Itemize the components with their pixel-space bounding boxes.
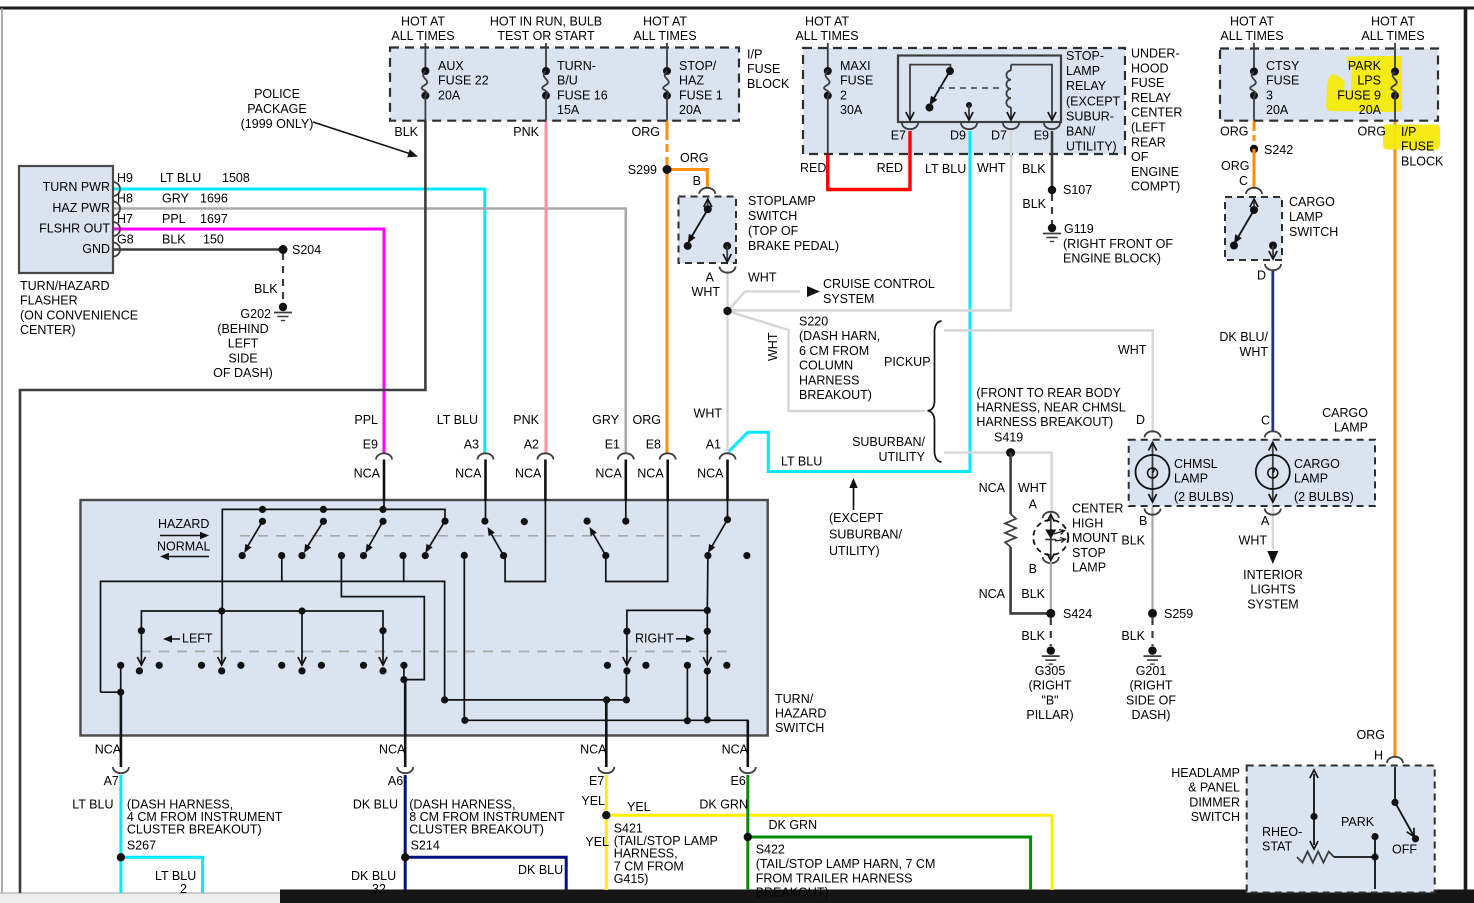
svg-text:LAMP: LAMP — [1066, 64, 1100, 78]
svg-text:CHMSL: CHMSL — [1174, 457, 1218, 471]
svg-text:LT BLU: LT BLU — [925, 162, 966, 176]
svg-text:CLUSTER BREAKOUT): CLUSTER BREAKOUT) — [409, 823, 544, 837]
svg-text:BAN/: BAN/ — [1066, 125, 1096, 139]
svg-text:DK BLU/: DK BLU/ — [1219, 330, 1268, 344]
svg-text:FUSE: FUSE — [747, 62, 780, 76]
svg-text:E7: E7 — [589, 774, 604, 788]
svg-text:COMPT): COMPT) — [1131, 180, 1180, 194]
svg-text:ORG: ORG — [1358, 125, 1386, 139]
svg-text:DK BLU: DK BLU — [518, 863, 563, 877]
svg-text:WHT: WHT — [1118, 343, 1147, 357]
svg-text:ALL TIMES: ALL TIMES — [1361, 29, 1424, 43]
svg-text:(TAIL/STOP LAMP HARN, 7 CM: (TAIL/STOP LAMP HARN, 7 CM — [756, 857, 936, 871]
svg-text:PICKUP: PICKUP — [884, 355, 931, 369]
svg-text:A: A — [706, 271, 715, 285]
svg-text:6 CM FROM: 6 CM FROM — [799, 344, 869, 358]
svg-text:SYSTEM: SYSTEM — [1247, 597, 1298, 611]
svg-text:FUSE 16: FUSE 16 — [557, 88, 608, 102]
svg-text:CTSY: CTSY — [1266, 59, 1300, 73]
svg-text:NCA: NCA — [95, 743, 122, 757]
svg-text:HARNESS: HARNESS — [799, 373, 859, 387]
svg-text:2: 2 — [840, 88, 847, 102]
svg-text:RED: RED — [877, 161, 903, 175]
svg-text:B: B — [693, 174, 701, 188]
svg-text:ORG: ORG — [1220, 125, 1248, 139]
svg-text:NCA: NCA — [595, 467, 622, 481]
svg-text:FUSE: FUSE — [1131, 76, 1164, 90]
svg-text:A6: A6 — [388, 774, 403, 788]
svg-text:HOT AT: HOT AT — [643, 15, 687, 29]
svg-text:PNK: PNK — [513, 413, 539, 427]
svg-text:E9: E9 — [1034, 129, 1049, 143]
svg-text:WHT: WHT — [692, 285, 721, 299]
svg-text:LT BLU: LT BLU — [155, 869, 196, 883]
svg-text:SWITCH: SWITCH — [748, 209, 797, 223]
svg-text:ORG: ORG — [1221, 159, 1249, 173]
svg-text:RELAY: RELAY — [1066, 79, 1107, 93]
svg-text:G201: G201 — [1136, 664, 1167, 678]
svg-text:FUSE 9: FUSE 9 — [1337, 88, 1381, 102]
svg-text:OFF: OFF — [1392, 843, 1417, 857]
svg-text:1697: 1697 — [200, 212, 228, 226]
svg-text:NCA: NCA — [697, 467, 724, 481]
svg-text:RHEO-: RHEO- — [1262, 825, 1302, 839]
svg-text:BLK: BLK — [394, 125, 418, 139]
svg-text:YEL: YEL — [627, 800, 651, 814]
svg-text:A: A — [1029, 498, 1038, 512]
svg-text:ORG: ORG — [632, 125, 660, 139]
svg-text:E6: E6 — [731, 774, 746, 788]
svg-text:GRY: GRY — [592, 413, 620, 427]
svg-text:NCA: NCA — [979, 587, 1006, 601]
svg-text:20A: 20A — [1266, 103, 1289, 117]
svg-text:WHT: WHT — [766, 332, 780, 361]
svg-text:UNDER-: UNDER- — [1131, 47, 1180, 61]
svg-text:"B": "B" — [1041, 693, 1058, 707]
svg-text:E9: E9 — [363, 438, 378, 452]
svg-text:DIMMER: DIMMER — [1189, 795, 1240, 809]
svg-text:H9: H9 — [117, 171, 133, 185]
svg-text:LIGHTS: LIGHTS — [1250, 583, 1295, 597]
svg-text:I/P: I/P — [747, 48, 762, 62]
svg-text:LAMP: LAMP — [1294, 472, 1328, 486]
svg-text:NCA: NCA — [354, 467, 381, 481]
svg-text:FUSE: FUSE — [1266, 74, 1299, 88]
svg-text:TURN-: TURN- — [557, 59, 596, 73]
svg-text:(LEFT: (LEFT — [1131, 121, 1166, 135]
svg-text:NCA: NCA — [722, 743, 749, 757]
svg-text:STOPLAMP: STOPLAMP — [748, 194, 816, 208]
svg-text:30A: 30A — [840, 103, 863, 117]
svg-text:ALL TIMES: ALL TIMES — [633, 29, 696, 43]
svg-text:S107: S107 — [1063, 183, 1092, 197]
svg-text:SWITCH: SWITCH — [775, 721, 824, 735]
svg-text:BLK: BLK — [1022, 162, 1046, 176]
svg-text:HAZARD: HAZARD — [775, 707, 826, 721]
svg-text:HIGH: HIGH — [1072, 516, 1103, 530]
svg-text:STOP: STOP — [1072, 546, 1106, 560]
svg-text:FLASHER: FLASHER — [20, 294, 78, 308]
svg-text:(EXCEPT: (EXCEPT — [829, 511, 884, 525]
svg-text:D: D — [1257, 269, 1266, 283]
svg-text:BRAKE PEDAL): BRAKE PEDAL) — [748, 239, 839, 253]
svg-text:LT BLU: LT BLU — [437, 413, 478, 427]
svg-text:NORMAL: NORMAL — [157, 540, 211, 554]
svg-text:MAXI: MAXI — [840, 59, 871, 73]
svg-text:GRY: GRY — [162, 192, 190, 206]
svg-text:15A: 15A — [557, 103, 580, 117]
svg-text:COLUMN: COLUMN — [799, 359, 853, 373]
svg-text:TEST OR START: TEST OR START — [497, 29, 595, 43]
svg-text:WHT: WHT — [1240, 345, 1269, 359]
svg-text:SUBUR-: SUBUR- — [1066, 109, 1114, 123]
svg-text:A: A — [1261, 514, 1270, 528]
svg-text:20A: 20A — [1359, 103, 1382, 117]
svg-text:BLK: BLK — [1021, 629, 1045, 643]
svg-text:C: C — [1239, 174, 1248, 188]
svg-text:FUSE: FUSE — [840, 74, 873, 88]
svg-text:FUSE 22: FUSE 22 — [438, 74, 489, 88]
svg-text:(1999 ONLY): (1999 ONLY) — [241, 117, 314, 131]
svg-text:S424: S424 — [1063, 607, 1092, 621]
svg-text:UTILITY: UTILITY — [878, 450, 925, 464]
svg-text:SIDE: SIDE — [228, 351, 257, 365]
svg-text:UTILITY): UTILITY) — [829, 544, 880, 558]
svg-text:ENGINE BLOCK): ENGINE BLOCK) — [1063, 252, 1161, 266]
svg-text:BLOCK: BLOCK — [747, 77, 790, 91]
svg-text:WHT: WHT — [748, 271, 777, 285]
svg-text:CLUSTER BREAKOUT): CLUSTER BREAKOUT) — [127, 823, 262, 837]
svg-text:NCA: NCA — [580, 743, 607, 757]
svg-text:PARK: PARK — [1348, 59, 1382, 73]
svg-text:H: H — [1374, 749, 1383, 763]
svg-text:& PANEL: & PANEL — [1188, 781, 1240, 795]
svg-text:HOT AT: HOT AT — [1230, 15, 1274, 29]
svg-text:LAMP: LAMP — [1174, 472, 1208, 486]
svg-text:HAZARD: HAZARD — [158, 517, 209, 531]
svg-text:LPS: LPS — [1357, 74, 1381, 88]
svg-text:HEADLAMP: HEADLAMP — [1171, 766, 1240, 780]
svg-text:SWITCH: SWITCH — [1191, 810, 1240, 824]
svg-text:DK GRN: DK GRN — [699, 798, 748, 812]
svg-text:FLSHR OUT: FLSHR OUT — [39, 222, 110, 236]
svg-text:BLK: BLK — [1022, 197, 1046, 211]
svg-text:E8: E8 — [646, 438, 661, 452]
svg-text:A1: A1 — [706, 438, 721, 452]
svg-text:(TOP OF: (TOP OF — [748, 224, 799, 238]
svg-text:CARGO: CARGO — [1322, 406, 1368, 420]
svg-text:B: B — [1029, 562, 1037, 576]
svg-text:FUSE: FUSE — [1401, 140, 1434, 154]
svg-text:BREAKOUT): BREAKOUT) — [799, 388, 872, 402]
svg-text:CRUISE CONTROL: CRUISE CONTROL — [823, 277, 935, 291]
svg-text:H7: H7 — [117, 212, 133, 226]
svg-text:UTILITY): UTILITY) — [1066, 140, 1117, 154]
svg-text:(DASH HARN,: (DASH HARN, — [799, 329, 880, 343]
svg-text:(FRONT TO REAR BODY: (FRONT TO REAR BODY — [976, 386, 1121, 400]
svg-text:NCA: NCA — [515, 467, 542, 481]
svg-text:NCA: NCA — [979, 481, 1006, 495]
svg-text:S299: S299 — [628, 163, 657, 177]
svg-text:HARNESS, NEAR CHMSL: HARNESS, NEAR CHMSL — [976, 401, 1125, 415]
svg-text:LAMP: LAMP — [1072, 561, 1106, 575]
svg-text:HARNESS BREAKOUT): HARNESS BREAKOUT) — [976, 415, 1113, 429]
svg-text:CARGO: CARGO — [1294, 457, 1340, 471]
svg-text:CENTER): CENTER) — [20, 323, 76, 337]
svg-text:SUBURBAN/: SUBURBAN/ — [829, 528, 902, 542]
svg-text:1508: 1508 — [222, 171, 250, 185]
svg-text:DK BLU: DK BLU — [353, 798, 398, 812]
svg-text:ALL TIMES: ALL TIMES — [795, 29, 858, 43]
svg-text:OF DASH): OF DASH) — [213, 366, 273, 380]
svg-text:ALL TIMES: ALL TIMES — [1220, 29, 1283, 43]
svg-text:PNK: PNK — [513, 125, 539, 139]
svg-text:G8: G8 — [117, 233, 134, 247]
svg-text:(2 BULBS): (2 BULBS) — [1174, 490, 1234, 504]
svg-text:LAMP: LAMP — [1289, 210, 1323, 224]
svg-text:FROM TRAILER HARNESS: FROM TRAILER HARNESS — [756, 871, 913, 885]
svg-text:D: D — [1136, 413, 1145, 427]
svg-text:SWITCH: SWITCH — [1289, 225, 1338, 239]
svg-text:ORG: ORG — [1357, 728, 1385, 742]
svg-text:A2: A2 — [524, 438, 539, 452]
svg-text:150: 150 — [203, 233, 224, 247]
svg-text:SYSTEM: SYSTEM — [823, 292, 874, 306]
svg-text:A7: A7 — [104, 774, 119, 788]
svg-text:HAZ: HAZ — [679, 74, 704, 88]
svg-text:E1: E1 — [605, 438, 620, 452]
svg-text:TURN PWR: TURN PWR — [43, 180, 110, 194]
svg-text:RELAY: RELAY — [1131, 91, 1172, 105]
svg-text:E7: E7 — [891, 129, 906, 143]
svg-text:HOT IN RUN, BULB: HOT IN RUN, BULB — [490, 15, 602, 29]
svg-text:STAT: STAT — [1262, 840, 1292, 854]
svg-text:STOP-: STOP- — [1066, 49, 1104, 63]
svg-text:HOT AT: HOT AT — [805, 15, 849, 29]
svg-text:I/P: I/P — [1401, 125, 1416, 139]
svg-text:DASH): DASH) — [1132, 708, 1171, 722]
svg-text:BLK: BLK — [1121, 629, 1145, 643]
svg-text:PILLAR): PILLAR) — [1026, 708, 1073, 722]
svg-text:WHT: WHT — [977, 161, 1006, 175]
svg-text:S422: S422 — [756, 843, 785, 857]
svg-text:PPL: PPL — [354, 413, 378, 427]
svg-text:(RIGHT FRONT OF: (RIGHT FRONT OF — [1063, 237, 1173, 251]
svg-text:(RIGHT: (RIGHT — [1129, 679, 1172, 693]
svg-text:CENTER: CENTER — [1131, 106, 1182, 120]
svg-text:LAMP: LAMP — [1334, 420, 1368, 434]
svg-text:NCA: NCA — [379, 743, 406, 757]
svg-text:NCA: NCA — [637, 467, 664, 481]
svg-text:H8: H8 — [117, 192, 133, 206]
svg-text:DK BLU: DK BLU — [351, 869, 396, 883]
svg-text:B/U: B/U — [557, 74, 578, 88]
svg-text:S220: S220 — [799, 315, 828, 329]
svg-text:G415): G415) — [614, 872, 649, 886]
svg-text:LT BLU: LT BLU — [160, 171, 201, 185]
svg-text:PARK: PARK — [1341, 815, 1375, 829]
svg-text:S242: S242 — [1264, 143, 1293, 157]
svg-text:HAZ PWR: HAZ PWR — [52, 201, 110, 215]
svg-text:ORG: ORG — [680, 151, 708, 165]
svg-text:DK GRN: DK GRN — [769, 818, 818, 832]
svg-text:S204: S204 — [292, 243, 321, 257]
svg-text:(2 BULBS): (2 BULBS) — [1294, 490, 1354, 504]
svg-text:G305: G305 — [1035, 664, 1066, 678]
svg-text:2: 2 — [180, 882, 187, 896]
svg-text:(RIGHT: (RIGHT — [1028, 679, 1071, 693]
svg-text:20A: 20A — [679, 103, 702, 117]
svg-text:FUSE 1: FUSE 1 — [679, 88, 723, 102]
svg-text:G202: G202 — [240, 307, 271, 321]
svg-text:PACKAGE: PACKAGE — [247, 102, 307, 116]
svg-text:WHT: WHT — [1239, 534, 1268, 548]
svg-text:OF: OF — [1131, 150, 1149, 164]
svg-text:LEFT: LEFT — [182, 632, 213, 646]
svg-text:INTERIOR: INTERIOR — [1243, 568, 1303, 582]
svg-text:AUX: AUX — [438, 59, 464, 73]
svg-text:BREAKOUT): BREAKOUT) — [756, 886, 829, 900]
svg-text:TURN/: TURN/ — [775, 692, 814, 706]
svg-text:PPL: PPL — [162, 212, 186, 226]
svg-text:3: 3 — [1266, 88, 1273, 102]
svg-text:(BEHIND: (BEHIND — [217, 322, 268, 336]
svg-text:HOT AT: HOT AT — [401, 15, 445, 29]
svg-text:ORG: ORG — [633, 413, 661, 427]
svg-text:LT BLU: LT BLU — [72, 798, 113, 812]
svg-text:SIDE OF: SIDE OF — [1126, 693, 1176, 707]
svg-text:RIGHT: RIGHT — [635, 632, 674, 646]
svg-text:D7: D7 — [991, 129, 1007, 143]
svg-text:POLICE: POLICE — [254, 87, 300, 101]
svg-text:BLK: BLK — [1121, 534, 1145, 548]
svg-text:RED: RED — [800, 161, 826, 175]
svg-text:(EXCEPT: (EXCEPT — [1066, 94, 1121, 108]
svg-text:WHT: WHT — [1018, 481, 1047, 495]
svg-text:BLK: BLK — [1021, 587, 1045, 601]
svg-text:YEL: YEL — [585, 835, 609, 849]
svg-text:GND: GND — [82, 242, 110, 256]
svg-text:S259: S259 — [1164, 607, 1193, 621]
svg-text:CARGO: CARGO — [1289, 195, 1335, 209]
svg-text:SUBURBAN/: SUBURBAN/ — [852, 435, 925, 449]
svg-text:LEFT: LEFT — [228, 337, 259, 351]
svg-text:CENTER: CENTER — [1072, 502, 1123, 516]
svg-text:A3: A3 — [464, 438, 479, 452]
svg-text:G119: G119 — [1064, 222, 1094, 236]
svg-text:32: 32 — [372, 882, 386, 896]
svg-text:MOUNT: MOUNT — [1072, 531, 1118, 545]
svg-text:ALL TIMES: ALL TIMES — [391, 29, 454, 43]
svg-text:BLK: BLK — [254, 282, 278, 296]
svg-text:YEL: YEL — [581, 794, 605, 808]
svg-text:NCA: NCA — [455, 467, 482, 481]
svg-text:HOT AT: HOT AT — [1371, 15, 1415, 29]
svg-text:HOOD: HOOD — [1131, 61, 1169, 75]
svg-text:S267: S267 — [127, 839, 156, 853]
svg-text:D9: D9 — [950, 129, 966, 143]
svg-text:WHT: WHT — [694, 407, 723, 421]
svg-text:S214: S214 — [411, 839, 440, 853]
svg-text:C: C — [1261, 414, 1270, 428]
svg-text:REAR: REAR — [1131, 135, 1166, 149]
svg-text:1696: 1696 — [200, 192, 228, 206]
svg-text:LT BLU: LT BLU — [781, 455, 822, 469]
svg-text:STOP/: STOP/ — [679, 59, 717, 73]
svg-text:BLK: BLK — [162, 233, 186, 247]
svg-text:20A: 20A — [438, 88, 461, 102]
svg-text:BLOCK: BLOCK — [1401, 154, 1444, 168]
svg-text:B: B — [1139, 514, 1147, 528]
svg-text:ENGINE: ENGINE — [1131, 165, 1179, 179]
svg-text:TURN/HAZARD: TURN/HAZARD — [20, 279, 110, 293]
svg-text:S419: S419 — [994, 431, 1023, 445]
svg-text:(ON CONVENIENCE: (ON CONVENIENCE — [20, 308, 138, 322]
